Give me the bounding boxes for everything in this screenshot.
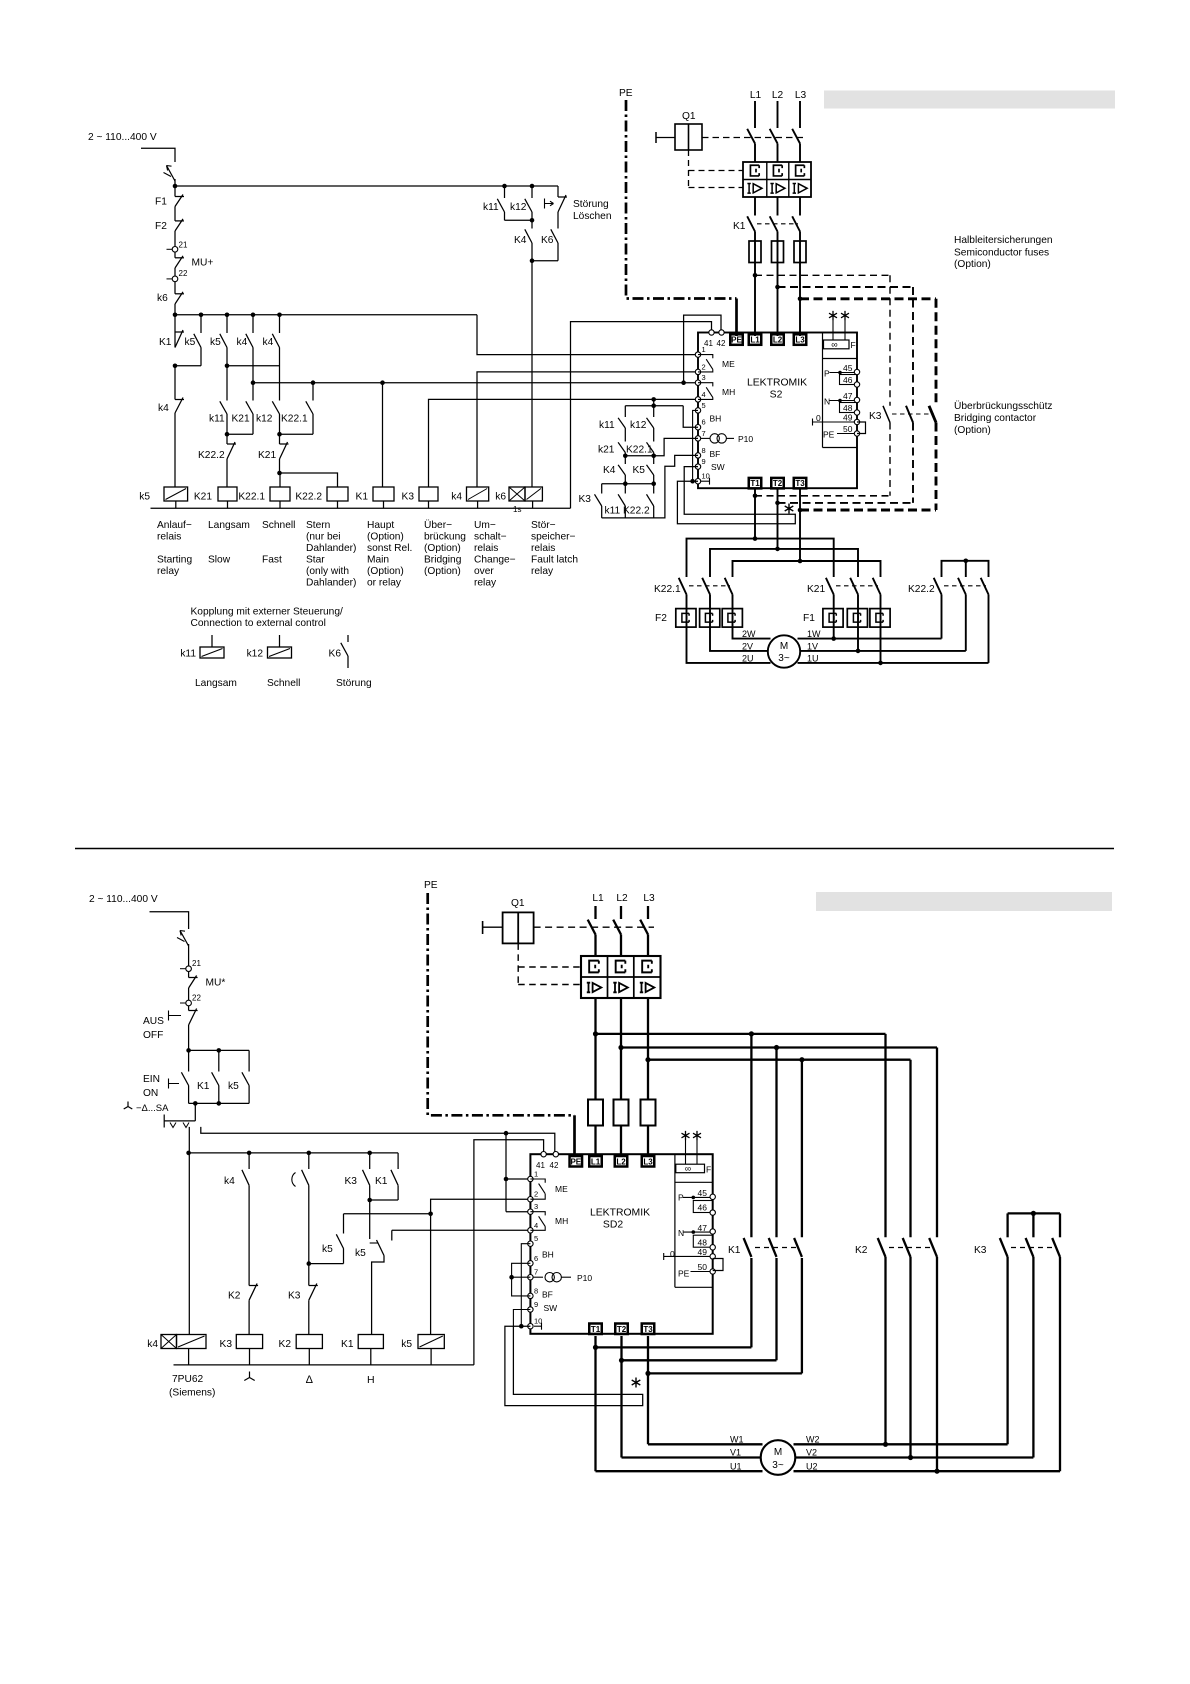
wire bracket to terminal 6 [683, 406, 698, 428]
svg-text:speicher−: speicher− [531, 532, 576, 543]
svg-text:k5: k5 [210, 337, 221, 348]
breaker Q1 poles D1 [747, 129, 755, 144]
svg-text:V2: V2 [806, 1448, 817, 1458]
wire terminal4 D2 [392, 1229, 530, 1231]
node join K1-k5a [173, 364, 178, 369]
svg-text:relay: relay [474, 578, 497, 589]
svg-text:22: 22 [192, 993, 201, 1002]
svg-text:MH: MH [555, 1216, 568, 1226]
svg-text:3: 3 [534, 1202, 538, 1211]
svg-text:k4: k4 [451, 492, 462, 503]
wire t3 terminal3 D1 [253, 382, 698, 384]
svg-text:k4: k4 [147, 1339, 158, 1350]
wire Q1 release link dashed D1 [688, 150, 690, 188]
svg-text:K1: K1 [728, 1245, 741, 1256]
svg-text:Dahlander): Dahlander) [306, 578, 356, 589]
svg-text:(nur bei: (nur bei [306, 532, 341, 543]
wire t4 terminal4 D1 [429, 399, 699, 487]
wire Q1 release link dashed D2 [517, 943, 519, 984]
tick terminal 10 D2 [534, 1325, 542, 1327]
svg-text:K22.1: K22.1 [654, 584, 681, 595]
asterisk D2 [632, 1378, 641, 1388]
contact release arc D2 [308, 1153, 310, 1169]
wire motor V1 [622, 1456, 761, 1458]
wire K1 pole risers D2 [750, 1034, 752, 1237]
svg-text:(Option): (Option) [954, 425, 991, 436]
svg-text:Stör−: Stör− [531, 520, 556, 531]
wire L2 drop D1 [777, 101, 779, 128]
terminal 22 D2 [180, 1002, 186, 1004]
svg-text:k11: k11 [180, 649, 196, 660]
contact K1 (NO) D2 [397, 1153, 399, 1169]
wire motor 1W [798, 638, 942, 640]
svg-text:MH: MH [722, 387, 735, 397]
svg-text:k5: k5 [228, 1081, 239, 1092]
svg-text:k11: k11 [209, 414, 225, 425]
wire SA branch to terminals D2 [201, 1127, 555, 1154]
svg-text:(Option): (Option) [367, 566, 404, 577]
svg-text:V1: V1 [730, 1448, 741, 1458]
coil k12 external [279, 635, 281, 647]
node t3-K1coil [380, 380, 385, 385]
svg-text:k12: k12 [256, 414, 273, 425]
wire motor 2V [710, 627, 769, 651]
svg-text:(only with: (only with [306, 566, 349, 577]
svg-text:Überbrückungsschütz: Überbrückungsschütz [954, 400, 1053, 412]
wire bypass return T2 dashed [912, 423, 914, 503]
terminal 21 D1 [167, 248, 173, 250]
svg-text:K22.2: K22.2 [198, 450, 225, 461]
svg-text:Störung: Störung [336, 678, 372, 689]
svg-text:LEKTROMIK: LEKTROMIK [747, 378, 807, 389]
svg-text:K4: K4 [514, 235, 527, 246]
wire bypass dashed L1 [755, 274, 890, 276]
wire T1 to K1 pole1 [596, 1346, 752, 1348]
wire control bus D1 [175, 314, 477, 316]
svg-text:46: 46 [843, 375, 853, 385]
wire control bus D2 [189, 1152, 399, 1154]
svg-text:K4: K4 [603, 465, 616, 476]
coil K21 (slow) [218, 487, 237, 501]
contact K22.2 (NC) row3 [227, 443, 236, 445]
contact k5b (NO) row1 [226, 315, 228, 333]
wire bottom rail D1 [151, 507, 571, 509]
device LEKTROMIK SD2 box [530, 1154, 712, 1334]
svg-text:2V: 2V [742, 641, 753, 651]
wire 42 to t3 D1 [684, 315, 721, 383]
wire bypass return T3 dashed heavy [935, 423, 938, 511]
contact F1 (NC) [175, 196, 184, 198]
fuse L3 D2 [641, 1100, 656, 1126]
svg-text:K22.1: K22.1 [238, 492, 265, 503]
svg-text:F: F [851, 340, 856, 350]
svg-text:relais: relais [531, 543, 555, 554]
wire parallel branch top D2 [189, 1049, 250, 1051]
svg-text:48: 48 [843, 403, 853, 413]
contact k6 (NC) [175, 293, 184, 295]
wire star loop with asterisk D2 [505, 1326, 643, 1405]
terminal 21 D2 [180, 968, 186, 970]
terminal box PE D2 [570, 1156, 583, 1167]
svg-text:MU+: MU+ [192, 258, 214, 269]
svg-text:F1: F1 [803, 613, 815, 624]
contact MU+ (NC) [175, 257, 184, 259]
wire motor 2U [687, 627, 771, 663]
contact K22.1 (NO) sub2 [653, 428, 655, 442]
svg-text:2 ~ 110...400 V: 2 ~ 110...400 V [89, 894, 158, 905]
node k12 join [530, 218, 535, 223]
svg-text:7: 7 [702, 429, 706, 438]
node c10 bus [690, 479, 695, 484]
svg-text:Halbleitersicherungen: Halbleitersicherungen [954, 235, 1053, 246]
node K22.1 coil tap [277, 471, 282, 476]
svg-text:K21: K21 [194, 492, 212, 503]
breaker Q1 poles D2 [588, 920, 596, 935]
release block D1 [743, 162, 811, 197]
selector switch SA [124, 1102, 133, 1110]
wire T2 to K1 pole2 [622, 1359, 777, 1361]
svg-text:k12: k12 [630, 420, 647, 431]
svg-text:N: N [824, 397, 830, 407]
svg-text:M: M [780, 641, 788, 652]
svg-text:or relay: or relay [367, 578, 402, 589]
wire bracket c9-c10 D2 [513, 1310, 530, 1327]
terminal box L1 D1 [749, 334, 762, 345]
svg-text:K21: K21 [258, 450, 276, 461]
wire to k11 k12 branch D1 [175, 185, 558, 187]
svg-text:Anlauf−: Anlauf− [157, 520, 192, 531]
svg-text:sonst Rel.: sonst Rel. [367, 543, 412, 554]
svg-text:SW: SW [711, 462, 725, 472]
svg-text:21: 21 [179, 241, 188, 250]
wire K1 coil drop [382, 383, 384, 487]
coil k5 D2 [418, 1335, 444, 1349]
svg-text:6: 6 [702, 418, 706, 427]
svg-text:k4: k4 [263, 337, 274, 348]
svg-text:M: M [774, 1447, 782, 1458]
svg-text:k5: k5 [185, 337, 196, 348]
svg-text:PE: PE [731, 336, 742, 345]
svg-text:K1: K1 [356, 492, 369, 503]
wires below release block D1 [754, 197, 756, 216]
wire L1 drop D1 [754, 101, 756, 128]
svg-text:W2: W2 [806, 1435, 820, 1445]
wire T1 distribution D1 [687, 539, 834, 577]
svg-text:Connection to external control: Connection to external control [191, 618, 326, 629]
wire bypass dashed L2 [778, 286, 914, 288]
coil stubs D2 [188, 1349, 190, 1365]
svg-text:Kopplung mit externer Steuerun: Kopplung mit externer Steuerung/ [191, 607, 344, 618]
coil k4 (timer) D2 [161, 1335, 177, 1349]
node t3-K21 [251, 380, 256, 385]
wire join k11-k12 reset [504, 212, 506, 220]
svg-text:PE: PE [678, 1269, 690, 1279]
svg-text:6: 6 [534, 1254, 538, 1263]
svg-text:k4: k4 [224, 1176, 235, 1187]
svg-text:K1: K1 [733, 221, 746, 232]
terminal box L3 D1 [794, 334, 807, 345]
coil K3 (bridging) [419, 487, 438, 501]
transformer P10 D2 [534, 1276, 544, 1278]
contact k4 (NC) left rail [174, 366, 176, 400]
release block symbols D2 [589, 961, 599, 973]
svg-text:BH: BH [710, 414, 722, 424]
svg-text:K1: K1 [159, 337, 172, 348]
svg-text:Change−: Change− [474, 555, 516, 566]
svg-text:BH: BH [542, 1250, 554, 1260]
svg-text:∞: ∞ [831, 340, 837, 350]
node T2 bypass [775, 501, 780, 506]
wire parallel join D2 [188, 1086, 190, 1104]
strip partition SD2 [674, 1154, 676, 1287]
contact K1 (NO) hold [212, 1072, 219, 1085]
svg-text:Langsam: Langsam [195, 678, 237, 689]
node parallel top D2 [186, 1048, 191, 1053]
svg-text:Slow: Slow [208, 555, 231, 566]
wire T3 column D2 [647, 1336, 649, 1444]
svg-text:AUS: AUS [143, 1016, 164, 1027]
wire join K4-K6 [531, 243, 533, 261]
terminals 1-10 D1 [695, 352, 700, 357]
svg-text:4: 4 [534, 1221, 538, 1230]
contact MU* (NC) D2 [189, 977, 198, 979]
svg-text:L1: L1 [591, 1157, 601, 1166]
svg-text:K22.2: K22.2 [623, 506, 650, 517]
svg-text:Haupt: Haupt [367, 520, 394, 531]
svg-text:schalt−: schalt− [474, 532, 507, 543]
svg-text:k5: k5 [322, 1244, 333, 1255]
wire join k11-K21 [227, 433, 253, 435]
contact MH D1 [698, 383, 713, 387]
svg-text:1W: 1W [807, 629, 821, 639]
svg-text:k5: k5 [139, 492, 150, 503]
contact K22.2 (NO) sub2 [653, 484, 655, 494]
contact K2 (NC) D2 [248, 1185, 250, 1285]
svg-text:48: 48 [698, 1237, 708, 1247]
wire Q1 link dashed D2 [534, 926, 654, 928]
svg-text:46: 46 [698, 1202, 708, 1212]
contact k11 (NO) sub2 [624, 406, 626, 417]
wire join sub2 row3 [624, 475, 626, 484]
svg-text:k12: k12 [247, 649, 264, 660]
terminal 42 D1 [719, 330, 724, 335]
wire stair L1 to K1 K2 D2 [596, 1033, 886, 1035]
terminal box L2 D1 [771, 334, 784, 345]
wire c5 to c10 D2 [521, 1244, 530, 1327]
wire t2 terminal2 D1 [477, 372, 698, 487]
wire sub2 bottom join to terminal 8 [601, 506, 603, 518]
node t3-42wire [681, 380, 686, 385]
redacted gray bar bottom [816, 892, 1112, 911]
svg-text:Star: Star [306, 555, 325, 566]
contact K3 (NC) D2 [309, 1285, 318, 1287]
wire join K1-k5a [175, 365, 201, 367]
wire L3 drop D1 [799, 101, 801, 128]
svg-text:F1: F1 [155, 197, 167, 208]
wire common c5-c10 D1 [693, 410, 698, 481]
coil K1 (main) [373, 487, 394, 501]
wire T2 distribution D1 [710, 549, 858, 577]
wire motor V2 [795, 1456, 1033, 1458]
svg-text:PE: PE [570, 1157, 581, 1166]
node K4 join [530, 258, 535, 263]
node T1 bypass [753, 494, 758, 499]
wire K4K6 to k6 coil [531, 261, 533, 487]
svg-text:k5: k5 [401, 1339, 412, 1350]
wire supply feed D2 [150, 912, 189, 929]
relay F box SD2 [676, 1164, 705, 1173]
svg-text:L2: L2 [773, 336, 783, 345]
wire tap to terminals 1 and 3 D2 [505, 1133, 507, 1212]
svg-text:8: 8 [534, 1286, 538, 1295]
contact k11 (NO) row2 [226, 366, 228, 401]
svg-text:50: 50 [698, 1262, 708, 1272]
contact K6 external [347, 635, 349, 642]
wire t1 terminal1 D1 [477, 315, 698, 355]
svg-text:k21: k21 [598, 445, 615, 456]
release block D2 [581, 956, 661, 998]
svg-text:22: 22 [179, 269, 188, 278]
svg-text:Starting: Starting [157, 555, 192, 566]
svg-text:SD2: SD2 [603, 1220, 623, 1231]
svg-text:K3: K3 [220, 1339, 233, 1350]
svg-text:K2: K2 [228, 1291, 241, 1302]
svg-text:Δ: Δ [306, 1374, 314, 1386]
node bracket [651, 403, 656, 408]
wire subcircuit2 top bracket [653, 399, 655, 405]
wire Q1 link dashed D1 [702, 137, 806, 139]
svg-text:K21: K21 [807, 584, 825, 595]
svg-text:Main: Main [367, 555, 389, 566]
node bus k5b [225, 313, 230, 318]
node bus k4b [277, 313, 282, 318]
symbol star below K3 [244, 1372, 254, 1381]
wire T2 column D2 [620, 1336, 622, 1458]
node stair L1 [593, 1031, 598, 1036]
svg-text:Langsam: Langsam [208, 520, 250, 531]
svg-text:k11: k11 [599, 420, 615, 431]
wire T3 to K1 pole3 [648, 1372, 802, 1374]
node SA branch tap [504, 1131, 509, 1136]
svg-text:k4: k4 [237, 337, 248, 348]
wire rail top D1 [174, 179, 176, 197]
svg-text:K3: K3 [402, 492, 415, 503]
terminal 41 D2 [541, 1152, 546, 1157]
wire stair L3 to K1 K2 D2 [648, 1059, 911, 1061]
svg-text:K6: K6 [541, 235, 554, 246]
contact k4b (NO) row1 [279, 315, 281, 333]
svg-text:H: H [367, 1374, 375, 1386]
node bus D1 [173, 313, 178, 318]
svg-text:brückung: brückung [424, 532, 466, 543]
terminal box T3 D1 [794, 478, 807, 489]
wire motor W1 [648, 1443, 763, 1445]
wire K3 pole drops D2 [1006, 1257, 1008, 1444]
svg-text:L1: L1 [750, 90, 762, 101]
svg-text:1: 1 [534, 1170, 538, 1179]
wire terminal 9 to star point [677, 467, 795, 524]
coil k4 (changeover relay) [467, 487, 489, 501]
node join k11-K21 [225, 432, 230, 437]
wire terminal2 to k5 coil D2 [431, 1199, 530, 1334]
svg-text:K2: K2 [279, 1339, 292, 1350]
node t3-K22.1 [311, 380, 316, 385]
node bypass L3 [798, 297, 803, 302]
wire L1 to box D1 [754, 263, 756, 337]
wire motor W2 [794, 1443, 1008, 1445]
terminal 22 D1 [167, 278, 173, 280]
wire motor U1 [596, 1470, 763, 1472]
svg-text:Stern: Stern [306, 520, 330, 531]
svg-text:47: 47 [843, 391, 853, 401]
terminal box L1 D2 [589, 1156, 602, 1167]
svg-text:K3: K3 [288, 1291, 301, 1302]
contact k12 (NO) reset branch [531, 186, 533, 198]
svg-text:k4: k4 [158, 403, 169, 414]
terminal box T1 D1 [749, 478, 762, 489]
node k12 branch [530, 184, 535, 189]
contact ME D2 [530, 1179, 545, 1183]
motor M 3~ D1 [768, 635, 800, 667]
wire T3 distribution D1 [733, 561, 881, 577]
terminal 41 D1 [709, 330, 714, 335]
terminal box T2 D2 [615, 1324, 628, 1335]
svg-text:1U: 1U [807, 653, 819, 663]
svg-text:K1: K1 [375, 1176, 388, 1187]
svg-text:50: 50 [843, 424, 853, 434]
wire T2 drop D1 [777, 488, 779, 549]
svg-text:(Option): (Option) [424, 566, 461, 577]
wire bracket c6-c7-c8 D2 [512, 1263, 531, 1296]
node bypass L1 [753, 273, 758, 278]
contact ME D1 [698, 355, 713, 359]
wire stair L2 to K1 K2 D2 [621, 1046, 937, 1048]
svg-text:3~: 3~ [772, 1460, 784, 1471]
svg-text:(Option): (Option) [954, 259, 991, 270]
svg-text:K3: K3 [869, 411, 882, 422]
contact K1 (NC) row1 [175, 331, 184, 333]
wire motor 2W [733, 627, 771, 639]
svg-text:42: 42 [550, 1161, 559, 1170]
svg-text:K1: K1 [197, 1081, 210, 1092]
svg-text:T3: T3 [643, 1325, 653, 1334]
svg-text:Störung: Störung [573, 199, 609, 210]
svg-text:over: over [474, 566, 494, 577]
node k11 branch [502, 184, 507, 189]
svg-text:7: 7 [534, 1268, 538, 1277]
disconnect switch D1 [167, 166, 176, 182]
svg-text:K22.1: K22.1 [626, 445, 653, 456]
contact K22.1 (NO) row2 [312, 383, 314, 401]
svg-text:2 ~ 110...400 V: 2 ~ 110...400 V [88, 132, 157, 143]
svg-text:L1: L1 [750, 336, 760, 345]
motor M 3~ D2 [761, 1440, 796, 1475]
svg-text:k6: k6 [495, 492, 506, 503]
wire K21nc to coils [280, 459, 338, 487]
svg-text:49: 49 [698, 1247, 708, 1257]
svg-text:K3: K3 [974, 1245, 987, 1256]
svg-text:P: P [824, 369, 830, 379]
svg-text:42: 42 [717, 339, 726, 348]
wire motor U2 [794, 1470, 1061, 1472]
coil k11 external [211, 635, 213, 647]
wire motor 1U [798, 662, 989, 664]
svg-text:K22.1: K22.1 [281, 414, 308, 425]
svg-text:Schnell: Schnell [267, 678, 300, 689]
terminal box T2 D1 [771, 478, 784, 489]
node bus k4a [251, 313, 256, 318]
svg-text:relais: relais [157, 532, 181, 543]
